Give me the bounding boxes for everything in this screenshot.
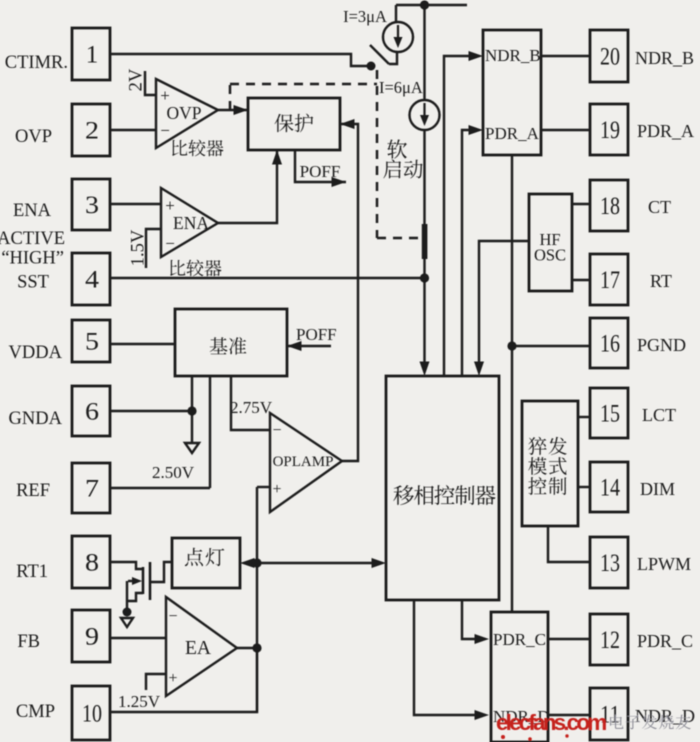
pin label LPWM [637, 554, 691, 574]
svg-text:POFF: POFF [296, 325, 337, 344]
svg-text:I=6μA: I=6μA [379, 78, 423, 97]
svg-text:−: − [160, 121, 170, 140]
pin label GNDA [9, 409, 63, 429]
wire EA output [237, 647, 257, 649]
wire 基准 2.50V down to pin7 wire [209, 376, 211, 488]
block 移相控制器 (phase-shift controller) U-PSC [386, 376, 499, 600]
wire PDR_C box to pin12 [548, 638, 589, 640]
svg-text:PGND: PGND [637, 335, 686, 355]
label POFF upper [300, 162, 341, 181]
wire pin10 to bus [110, 648, 257, 712]
wire dashed right vertical [376, 70, 378, 238]
block PDR_C/NDR_D driver [491, 612, 550, 742]
svg-text:+: + [165, 196, 175, 215]
svg-text:+: + [160, 86, 170, 105]
svg-text:20: 20 [600, 44, 620, 71]
svg-text:POFF: POFF [300, 162, 341, 181]
wire bar to SST node [423, 258, 425, 278]
svg-text:9: 9 [85, 624, 99, 651]
svg-text:GNDA: GNDA [9, 409, 63, 429]
pin label ENA [13, 201, 52, 221]
svg-text:16: 16 [600, 331, 620, 358]
svg-text:ENA: ENA [13, 201, 52, 221]
wire HF OSC to pin18 [572, 203, 590, 205]
wire HF OSC to controller w/ arrow [474, 241, 529, 376]
svg-text:8: 8 [85, 550, 99, 577]
svg-text:1: 1 [86, 42, 99, 69]
pin label LCT [642, 405, 676, 425]
switch SW1 blade [370, 45, 389, 64]
pin label DIM [640, 479, 675, 499]
pin box 7 [72, 463, 110, 513]
wire pin7 to 2.50V [110, 487, 210, 489]
block 猝发模式控制 (burst mode control) [522, 401, 578, 526]
wire burst to pin15 [578, 416, 590, 418]
node M1 source junction [123, 608, 132, 617]
pin box 9 [72, 610, 110, 662]
current source I2 I=6uA [410, 100, 440, 130]
svg-text:−: − [168, 608, 177, 625]
ground symbol under 基准 [185, 443, 199, 453]
comparator OVP [156, 79, 218, 148]
pin box 20 [590, 30, 628, 82]
svg-text:15: 15 [600, 401, 620, 428]
pin label CMP [16, 702, 55, 722]
wire pin8 to MOSFET gate [110, 562, 143, 569]
svg-text:+: + [272, 481, 281, 498]
wire PDR_A drive w/ arrows [462, 125, 483, 376]
wire burst to pin14 [578, 486, 590, 488]
svg-text:OSC: OSC [534, 246, 566, 265]
svg-text:PDR_A: PDR_A [637, 121, 694, 141]
wire pin5 to 基准 [110, 343, 175, 345]
svg-text:PDR_C: PDR_C [493, 630, 546, 649]
op-amp EA [166, 597, 237, 696]
svg-text:OVP: OVP [166, 103, 201, 123]
transistor M1 channel bar [149, 562, 152, 600]
pin box 3 [72, 179, 110, 230]
svg-text:2: 2 [85, 118, 99, 145]
svg-text:“HIGH”: “HIGH” [1, 249, 64, 269]
wire driver bottom bus [511, 155, 513, 612]
svg-text:REF: REF [16, 481, 50, 501]
svg-text:CMP: CMP [16, 702, 55, 722]
svg-text:PDR_C: PDR_C [637, 631, 693, 651]
pin box 10 [72, 686, 110, 740]
wire arrow into 点灯 right edge [240, 558, 257, 568]
label 2V [127, 68, 147, 91]
wire EA/OPLAMP bus [256, 487, 258, 712]
wire OPLAMP output to 保护 right w/ arrow [340, 119, 358, 461]
pin box 6 [72, 386, 110, 436]
label I=6uA [379, 78, 423, 97]
svg-text:6: 6 [85, 399, 99, 426]
svg-text:elecfans.com: elecfans.com [496, 710, 606, 735]
block NDR_B/PDR_A driver [483, 30, 541, 155]
svg-text:5: 5 [85, 329, 99, 356]
node SST junction [420, 273, 429, 282]
svg-text:RT: RT [650, 271, 672, 291]
wire node to pin16 [512, 345, 590, 347]
svg-text:2.50V: 2.50V [152, 463, 195, 482]
wire OVP output w/ arrow into 保护 [218, 105, 248, 115]
svg-text:NDR_B: NDR_B [485, 46, 541, 65]
wire pin9 to EA- [110, 637, 166, 639]
block HF OSC [529, 194, 572, 291]
svg-text:18: 18 [600, 193, 620, 220]
wire pin4 (SST) to node [110, 277, 425, 279]
wire 基准 down to GNDA node [191, 376, 193, 443]
pin label PDR_A [637, 121, 694, 141]
wire pin3 to ENA+ [110, 203, 161, 205]
node bus-点灯 junction [252, 558, 261, 567]
pin label RT1 [16, 562, 48, 582]
wire pin6 to node [110, 410, 192, 412]
node bus-EA junction [252, 643, 261, 652]
node GNDA junction [187, 406, 196, 415]
svg-text:2.75V: 2.75V [230, 398, 273, 417]
svg-text:OVP: OVP [15, 127, 52, 147]
comparator ENA [161, 188, 218, 257]
wire I1 bottom lead [389, 52, 397, 64]
pin box 13 [590, 537, 628, 588]
pin box 4 [72, 253, 110, 305]
wire controller to NDR_D w/ arrow [414, 600, 489, 720]
svg-text:DIM: DIM [640, 479, 675, 499]
wire M1 drain to 点灯 [150, 562, 172, 582]
pin label NDR_D [635, 706, 695, 726]
wire rail to I=3uA source [395, 5, 397, 23]
svg-text:ENA: ENA [173, 213, 209, 233]
wire 基准 to OPLAMP- (2.75V) [231, 376, 270, 430]
watermark 电子发烧友 [610, 715, 691, 730]
pin label ACTIVE [0, 229, 65, 249]
pin label CTIMR [5, 53, 68, 73]
transistor M1 arrow into gate [128, 577, 142, 585]
svg-text:LCT: LCT [642, 405, 676, 425]
wire POFF out of 保护 w/ arrow [295, 150, 346, 187]
svg-text:VDDA: VDDA [9, 343, 63, 363]
svg-text:ACTIVE: ACTIVE [0, 229, 65, 249]
svg-text:17: 17 [600, 267, 620, 294]
pin label NDR_B [635, 48, 694, 68]
wire bus to 移相控制器 w/ arrow [257, 558, 386, 568]
pin box 1 [72, 28, 110, 80]
wire 1.5V lead [146, 229, 161, 268]
label 启动 (start) [383, 159, 422, 178]
pin box 5 [72, 320, 110, 362]
wire source down to ground node [126, 581, 128, 612]
svg-text:OPLAMP: OPLAMP [273, 454, 334, 470]
label 2.50V [152, 463, 195, 482]
wire controller to PDR_C w/ arrow [462, 600, 489, 644]
watermark elecfans.com [496, 710, 606, 741]
svg-text:3: 3 [85, 192, 99, 219]
pin label VDDA [9, 343, 63, 363]
svg-text:CTIMR.: CTIMR. [5, 53, 68, 73]
block 保护 (protection) U-PROT [248, 98, 340, 150]
node top rail junction [420, 0, 429, 9]
pin box 8 [72, 536, 110, 588]
wire OPLAMP+ lead [257, 486, 270, 488]
wire I2 to capacitor bar [423, 130, 425, 224]
pin label CT [648, 197, 671, 217]
svg-text:4: 4 [85, 267, 100, 294]
op-amp OPLAMP [270, 413, 342, 512]
svg-text:10: 10 [82, 701, 102, 728]
pin label HIGH [1, 249, 64, 269]
label I=3uA [343, 7, 387, 26]
pin label REF [16, 481, 50, 501]
wire pin1 to switch pole [110, 54, 367, 66]
svg-text:CT: CT [648, 197, 671, 217]
pin box 14 [590, 462, 628, 512]
wire ENA output to 保护 bottom w/ arrow [218, 150, 282, 223]
wire top supply rail [396, 4, 467, 6]
svg-text:I=3μA: I=3μA [343, 7, 387, 26]
wire PDR_A box to pin19 [541, 129, 590, 131]
node switch pole [367, 62, 376, 71]
svg-text:PDR_A: PDR_A [485, 124, 540, 143]
wire dashed top [230, 83, 377, 85]
transistor M1 gate wrap to source node [127, 593, 143, 601]
svg-text:NDR_B: NDR_B [635, 48, 694, 68]
pin label PDR_C [637, 631, 693, 651]
wire 2V lead [145, 71, 156, 95]
svg-text:12: 12 [600, 627, 620, 654]
pin box 19 [590, 104, 628, 155]
svg-text:1.25V: 1.25V [118, 692, 161, 711]
wire burst to pin13 [548, 526, 590, 562]
current source I1 I=3uA [383, 22, 413, 52]
pin box 17 [590, 254, 628, 305]
block 基准 (reference) U-REF [175, 309, 287, 376]
svg-text:14: 14 [600, 475, 620, 502]
label 软 (soft) [387, 139, 407, 158]
wire dashed from OVP output up [229, 84, 231, 110]
svg-text:2V: 2V [127, 68, 147, 91]
pin box 18 [590, 180, 628, 231]
svg-text:13: 13 [600, 550, 620, 577]
label POFF mid [296, 325, 337, 344]
wire soft-start to 移相控制器 w/ arrow [420, 278, 430, 376]
pin label RT [650, 271, 672, 291]
svg-text:−: − [272, 422, 281, 439]
wire NDR_B drive w/ arrows [444, 51, 483, 376]
label 1.5V [129, 229, 149, 266]
pin box 16 [590, 318, 628, 368]
pin box 11 [590, 688, 628, 740]
svg-text:7: 7 [85, 476, 99, 503]
wire NDR_B box to pin20 [541, 55, 590, 57]
label 比较器 under ENA [170, 260, 221, 277]
wire 1.25V lead to EA+ [146, 674, 166, 690]
pin box 12 [590, 614, 628, 665]
pin label FB [17, 632, 40, 652]
pin label PGND [637, 335, 686, 355]
svg-text:FB: FB [17, 632, 40, 652]
svg-text:SST: SST [17, 273, 49, 293]
svg-text:RT1: RT1 [16, 562, 48, 582]
ground symbol under M1 [121, 618, 133, 627]
svg-text:EA: EA [185, 638, 211, 659]
svg-text:+: + [168, 670, 177, 687]
capacitor SST bar [422, 224, 428, 259]
transistor M1 gate bar [142, 567, 145, 594]
label 2.75V [230, 398, 273, 417]
wire HF OSC to pin17 [572, 279, 590, 281]
pin box 15 [590, 388, 628, 438]
block 点灯 (ignite) U-IGN [172, 538, 240, 588]
pin box 2 [72, 104, 110, 156]
label 1.25V [118, 692, 161, 711]
node PGND junction [507, 341, 516, 350]
svg-text:19: 19 [600, 117, 620, 144]
wire NDR_D box to pin11 [548, 714, 589, 716]
wire soft-start line top [423, 5, 425, 100]
svg-text:−: − [165, 234, 175, 253]
wire POFF into 基准 w/ arrow [287, 341, 331, 351]
pin label OVP [15, 127, 52, 147]
svg-text:LPWM: LPWM [637, 554, 691, 574]
wire pin2 to OVP- [110, 129, 156, 131]
wire dashed into capacitor [377, 237, 421, 239]
label 比较器 under OVP [172, 140, 223, 157]
pin label SST [17, 273, 49, 293]
